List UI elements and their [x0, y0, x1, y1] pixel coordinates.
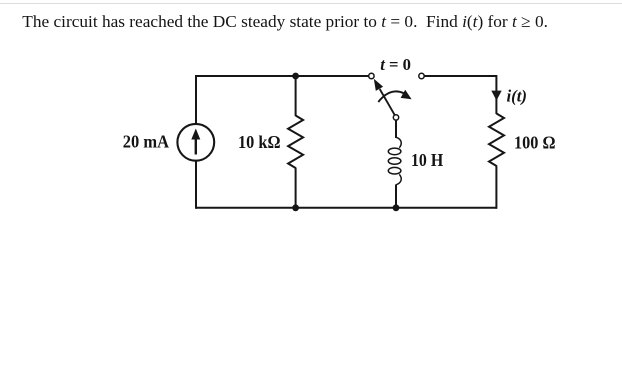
switch blade	[380, 89, 395, 115]
top hairline	[0, 3, 622, 4]
node: bottom of inductor branch	[393, 204, 400, 211]
current source (20 mA)	[177, 124, 214, 161]
svg-text:10 H: 10 H	[411, 150, 444, 170]
switch contact right	[419, 73, 424, 78]
svg-text:i(t): i(t)	[507, 87, 528, 106]
svg-text:t = 0: t = 0	[380, 55, 411, 74]
wire: inductor branch upper	[395, 120, 397, 138]
switch contact left	[369, 73, 374, 78]
wire: top right segment	[424, 75, 496, 77]
resistor 10 kOhm	[288, 116, 303, 169]
switch blade arrowhead	[374, 79, 383, 91]
wire: top left segment	[196, 75, 369, 77]
wire: 10k branch upper	[295, 76, 297, 116]
switch motion arrowhead	[401, 90, 412, 100]
switch contact pole	[393, 115, 398, 120]
svg-text:20 mA: 20 mA	[123, 132, 170, 152]
problem text	[22, 11, 548, 33]
current arrow i(t)	[491, 91, 501, 101]
switch t=0	[369, 73, 425, 120]
node: top of 10k branch	[292, 73, 299, 80]
wire: 10k branch lower	[295, 168, 297, 208]
svg-text:10 kΩ: 10 kΩ	[238, 132, 281, 152]
inductor 10 H	[388, 137, 401, 185]
wire: right rail lower	[495, 166, 497, 209]
wire: right rail upper	[495, 75, 497, 114]
resistor 100 Ohm	[489, 114, 504, 167]
wire: left rail upper	[195, 75, 197, 124]
wire: inductor branch lower	[395, 185, 397, 208]
wire: left rail lower	[195, 161, 197, 209]
switch motion arc	[378, 91, 404, 102]
node: bottom of 10k branch	[292, 204, 299, 211]
svg-text:100 Ω: 100 Ω	[514, 132, 556, 152]
wire: bottom bus	[196, 207, 496, 209]
